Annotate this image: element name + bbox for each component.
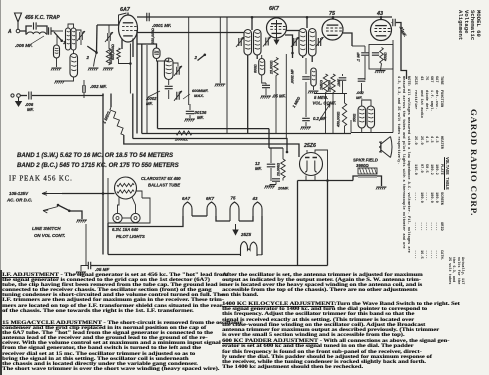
output transformer primary (358, 106, 366, 128)
wire (157, 61, 159, 129)
antenna trimmer (80, 32, 82, 40)
svg-text:75: 75 (231, 196, 236, 201)
resistor 450,000 ohm (342, 103, 346, 126)
tube 6A7 1st det-osc (119, 15, 138, 42)
capacitor .05 MF (262, 85, 270, 87)
wire (83, 80, 85, 86)
pilot arrow (233, 224, 238, 235)
wire (247, 55, 249, 134)
line switch (58, 205, 69, 211)
ground (77, 219, 87, 221)
75 top cap lead (332, 17, 334, 19)
svg-text:5 MEG.: 5 MEG. (314, 95, 328, 100)
tube 75 2nd det - 1st audio (322, 19, 343, 40)
svg-text:ON VOL CONT.: ON VOL CONT. (34, 233, 65, 238)
coupling capacitor .1 MF (361, 53, 369, 55)
wire (314, 93, 347, 95)
svg-text:BALLAST TUBE: BALLAST TUBE (148, 183, 180, 188)
ground (215, 83, 225, 85)
wire (107, 223, 109, 255)
ground (89, 67, 99, 69)
alignment text column 2 (222, 273, 485, 371)
speaker field coil (358, 168, 377, 174)
svg-text:456 K.C. TRAP: 456 K.C. TRAP (24, 15, 60, 21)
rotated title block MODEL 60 (457, 10, 481, 52)
junction (332, 16, 335, 19)
svg-text:BAND 1 (S.W.) 5.62 TO 16 MC. O: BAND 1 (S.W.) 5.62 TO 16 MC. OR 18.5 TO … (17, 152, 173, 159)
trap capacitor (34, 22, 37, 29)
leader line (183, 94, 190, 99)
series antenna coil 300 ohm (56, 36, 58, 45)
tube 43 power output (371, 20, 392, 41)
wire (141, 44, 143, 134)
oscillator SW trimmer (177, 67, 179, 75)
antenna terminal A (16, 29, 20, 33)
heater wire (239, 216, 253, 221)
wire (297, 181, 299, 266)
wire (137, 44, 157, 48)
ground (76, 271, 86, 273)
wire (332, 93, 334, 134)
6A7 top cap lead (127, 13, 129, 16)
capacitor (302, 77, 310, 79)
oscillator feedback coil (153, 48, 160, 59)
wire (226, 17, 228, 134)
wire (69, 211, 82, 219)
svg-text:450Ω: 450Ω (384, 52, 388, 62)
svg-text:.0002 MF: .0002 MF (291, 68, 295, 84)
wire (392, 40, 394, 133)
wire (270, 185, 276, 187)
wire (292, 53, 294, 58)
wire (315, 150, 328, 181)
pilot lamp 2 (131, 213, 140, 222)
svg-text:350Ω: 350Ω (353, 113, 357, 122)
bus wire (124, 135, 299, 157)
wire 75 plate (343, 33, 352, 46)
rotated company name GAROD RADIO CORP (469, 109, 479, 269)
wire (146, 45, 148, 134)
band switch contact 1 (54, 32, 62, 41)
wire tone cap to output (396, 23, 407, 80)
svg-text:3660Ω: 3660Ω (356, 163, 369, 168)
svg-text:6A7: 6A7 (182, 196, 191, 201)
filter capacitor 20 MF (272, 179, 280, 181)
2nd IF secondary trimmer (318, 38, 320, 46)
rotated note fragment bottom right (447, 257, 464, 303)
ground (52, 67, 62, 69)
heater wire (192, 215, 207, 217)
43 top cap lead (380, 17, 382, 20)
speaker voice coil (379, 142, 381, 152)
junction (380, 16, 383, 19)
bottom wire (91, 265, 328, 267)
line wire (62, 193, 115, 195)
wire (96, 25, 99, 53)
oscillator coil (164, 58, 173, 80)
wire to 2nd IF (306, 17, 308, 28)
svg-text:1MEG: 1MEG (320, 80, 324, 90)
wire (62, 77, 74, 81)
svg-text:25,000Ω: 25,000Ω (270, 60, 274, 75)
svg-text:CLAROSTAT 6X 490: CLAROSTAT 6X 490 (141, 176, 181, 181)
wire (85, 224, 87, 259)
wave trap L/C (20, 26, 32, 31)
heater 6A7 (183, 202, 192, 216)
capacitor .0001 MF (147, 13, 149, 21)
wire (282, 178, 284, 181)
2nd IF transformer primary (299, 29, 307, 57)
43 cathode network box (369, 45, 393, 70)
2nd IF trimmer (294, 38, 296, 46)
band switch contact 2b (198, 55, 205, 61)
svg-text:43: 43 (376, 11, 383, 17)
pilot lamp 1 (113, 213, 122, 222)
wire (268, 129, 270, 148)
wire (314, 176, 316, 181)
svg-text:500,000Ω: 500,000Ω (111, 44, 115, 60)
wire output box bottom (351, 132, 393, 134)
wire to 1st IF (251, 17, 253, 30)
wire (108, 25, 110, 33)
wire (132, 39, 134, 58)
svg-text:PILOT LIGHTS: PILOT LIGHTS (116, 234, 145, 239)
svg-text:A: A (7, 29, 12, 35)
wire (132, 94, 134, 139)
junction (129, 62, 132, 65)
ground (309, 90, 319, 92)
wire (118, 197, 120, 213)
capacitor .1 MF (339, 78, 347, 80)
wire (136, 30, 138, 134)
resistor 600 ohm (259, 59, 265, 76)
heater 75 (230, 202, 239, 221)
volume control arrow (319, 104, 330, 121)
2nd IF transformer secondary (309, 29, 317, 57)
svg-text:MF.: MF. (197, 115, 204, 120)
wire (132, 197, 136, 213)
antenna (15, 13, 22, 29)
svg-text:.05 MF.: .05 MF. (272, 94, 286, 99)
cathode bypass capacitor (372, 53, 379, 55)
svg-text:105-125V: 105-125V (9, 191, 29, 196)
heater wire (108, 216, 183, 227)
wire (285, 35, 293, 53)
band switch 2 (87, 46, 96, 52)
wire (173, 63, 178, 67)
wire (327, 181, 329, 266)
svg-text:75: 75 (329, 11, 336, 17)
svg-text:AC. OR D.C.: AC. OR D.C. (6, 198, 32, 203)
coil (54, 45, 60, 58)
resistor 1 MEG grid leak (110, 107, 124, 135)
junction (286, 151, 289, 154)
svg-text:LINE SWITCH: LINE SWITCH (32, 226, 61, 231)
tube 25Z6 rectifier (300, 153, 323, 176)
capacitor .05 MF (88, 262, 90, 270)
svg-text:20,000Ω: 20,000Ω (277, 163, 281, 177)
tuning condenser (ant section) (108, 33, 110, 41)
wire (377, 176, 382, 186)
cathode resistor 450 ohm (380, 48, 384, 64)
filter capacitor 12 MF (267, 164, 275, 167)
ground arrow (16, 98, 22, 107)
wire (282, 148, 284, 159)
1st IF transformer secondary (254, 30, 262, 56)
resistor 2000 ohm (176, 131, 192, 135)
svg-text:.1MF: .1MF (337, 78, 341, 87)
bus wire (142, 133, 351, 135)
svg-text:20MF.: 20MF. (277, 186, 289, 191)
wire (129, 44, 131, 94)
wire (270, 168, 272, 181)
wire (305, 82, 307, 117)
bus wire to 25Z6 (133, 139, 287, 153)
wire (325, 93, 327, 134)
antenna transformer primary (66, 28, 71, 50)
volume control 5 MEG (331, 74, 335, 93)
output transformer secondary (367, 106, 375, 128)
wire (68, 24, 74, 28)
svg-text:MF.: MF. (356, 95, 362, 100)
series antenna capacitor (49, 27, 51, 35)
svg-text:BAND 2 (B.C.) 545 TO 1715 KC.: BAND 2 (B.C.) 545 TO 1715 KC. OR 175 TO … (17, 162, 179, 169)
wire (261, 55, 263, 59)
wire (257, 255, 262, 256)
wire (80, 40, 82, 45)
wire (350, 120, 352, 133)
wire (83, 92, 85, 98)
svg-text:6A7: 6A7 (120, 7, 131, 13)
svg-text:43: 43 (252, 196, 258, 201)
wire long vertical (102, 94, 104, 255)
1st IF trimmer (239, 38, 241, 46)
svg-text:MF.: MF. (255, 166, 262, 171)
ground (376, 70, 386, 72)
svg-text:MF.: MF. (146, 101, 153, 106)
capacitor .0002 MF (165, 86, 173, 88)
svg-text:600Ω: 600Ω (254, 64, 258, 73)
ground (104, 67, 114, 69)
wire (94, 53, 97, 67)
phono terminals (11, 94, 14, 97)
heater wire (261, 216, 263, 255)
wire grid lead to 6A7 (97, 24, 119, 26)
leader line (31, 36, 44, 44)
wire (311, 56, 313, 62)
ground (261, 95, 271, 97)
capacitor .01 MF (393, 19, 395, 27)
capacitor 0.2 MF (302, 118, 310, 120)
antenna BC winding (70, 54, 78, 78)
ground (301, 126, 311, 128)
rotated voltage table (395, 76, 448, 314)
speaker cone (381, 137, 392, 158)
oscillator BC trimmer (177, 92, 179, 100)
resistor (117, 48, 121, 59)
resistor 1 MEG (323, 74, 327, 93)
wire (364, 56, 366, 80)
svg-text:450,000Ω: 450,000Ω (337, 111, 341, 128)
wire (108, 41, 110, 48)
wire (275, 76, 277, 134)
line input arrows (42, 192, 62, 196)
svg-text:0.2 MF: 0.2 MF (313, 116, 326, 121)
wire (344, 94, 346, 104)
svg-text:250,000: 250,000 (328, 80, 332, 93)
wire (189, 104, 191, 110)
heater wire (216, 216, 230, 221)
wire (381, 64, 382, 71)
svg-text:25Z6: 25Z6 (303, 143, 316, 149)
wire (362, 100, 371, 106)
wire (32, 94, 103, 96)
svg-text:MF.: MF. (27, 107, 34, 112)
1st IF transformer primary (244, 30, 252, 56)
svg-text:2: 2 (86, 55, 90, 60)
ballast tube (115, 177, 137, 199)
wire (285, 54, 287, 139)
svg-text:25Z5: 25Z5 (240, 232, 252, 237)
svg-text:MAX.: MAX. (194, 93, 204, 98)
antenna transformer secondary (71, 28, 76, 50)
wire to 6A7 grid cap (119, 13, 127, 25)
wire (219, 17, 221, 83)
wire to field coil (353, 176, 358, 181)
wire (73, 50, 75, 54)
wire (168, 90, 170, 99)
svg-text:.002 MF.: .002 MF. (90, 84, 107, 89)
heater 6K7 (207, 202, 216, 216)
wire (305, 176, 307, 181)
alignment text column 1 (2, 273, 267, 373)
ground (377, 186, 387, 188)
wire (352, 45, 365, 47)
svg-text:6K7: 6K7 (269, 6, 280, 12)
svg-text:SPKR FIELD: SPKR FIELD (353, 158, 378, 163)
wire (270, 148, 272, 163)
heater return wire (108, 254, 241, 256)
ground (265, 185, 275, 187)
top bus wire (137, 16, 392, 18)
svg-text:.006 MF.: .006 MF. (15, 43, 33, 48)
plate wire 6A7 to 1st IF (138, 32, 245, 34)
bus wire (158, 128, 270, 130)
left page edge line (0, 0, 1, 270)
wire (344, 126, 346, 134)
wire (110, 94, 112, 108)
wire (302, 56, 304, 58)
resistor 20,000 ohm (281, 159, 285, 178)
svg-text:IF PEAK 456 KC.: IF PEAK 456 KC. (9, 176, 73, 183)
wire (121, 39, 123, 50)
svg-text:.0001 MF.: .0001 MF. (152, 23, 171, 28)
tube 6K7 IF amplifier (267, 18, 287, 38)
wire (188, 17, 190, 105)
padder capacitor (186, 111, 194, 113)
AVC arrow through 6K7 (274, 20, 278, 44)
wire (256, 55, 258, 59)
wire (157, 59, 169, 62)
svg-text:250,000Ω: 250,000Ω (151, 28, 155, 45)
wire (119, 59, 131, 64)
wire B+ bus (298, 180, 354, 182)
capacitor .002 MF (83, 85, 85, 93)
svg-text:2: 2 (194, 55, 198, 60)
1st IF secondary trimmer (266, 38, 268, 46)
svg-text:.1 MF: .1 MF (357, 52, 361, 62)
resistor 300 ohm (311, 68, 316, 86)
svg-text:6K7: 6K7 (206, 196, 215, 201)
ground (185, 118, 195, 120)
heater 25Z6 double arch (241, 242, 258, 257)
plate wire 6K7 to 2nd IF (287, 30, 300, 32)
trap coil (27, 32, 46, 34)
leader line (148, 91, 160, 97)
wire (262, 75, 266, 83)
wire (305, 58, 307, 74)
resistor 50,000 ohm (106, 48, 110, 65)
wire (137, 191, 143, 198)
wire (269, 147, 283, 149)
wire (361, 83, 363, 93)
ground (55, 80, 65, 82)
wire (364, 46, 366, 52)
wire (76, 30, 81, 32)
capacitor (29, 92, 31, 100)
wire (122, 217, 131, 219)
wire (306, 150, 308, 153)
heater 43 (253, 202, 262, 216)
resistor 25,000 ohm (274, 58, 278, 76)
svg-text:6.3V. 15A 640: 6.3V. 15A 640 (112, 227, 139, 232)
wire (21, 95, 28, 97)
pilot light box (108, 178, 150, 223)
capacitor .002 MF (358, 79, 366, 81)
